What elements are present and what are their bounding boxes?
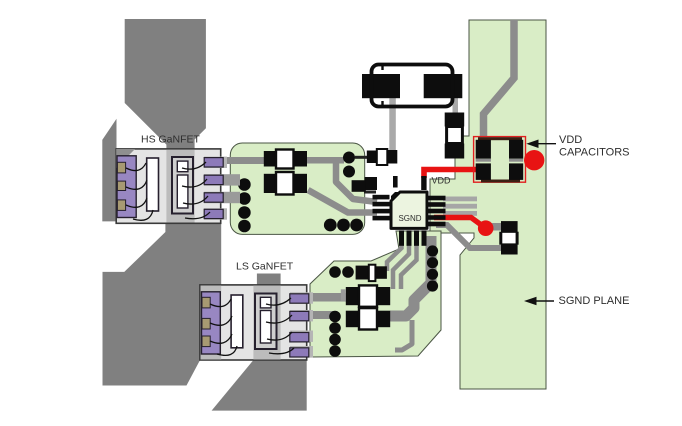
LS package: die block 2: [255, 294, 277, 350]
LS GaNFET package body: [200, 285, 307, 360]
copper pour: stub above LS package: [257, 274, 281, 287]
vias: HS drive left column: [238, 178, 251, 191]
HS package: die rail 1: [147, 158, 159, 211]
trace: wide band under via column into LS: [390, 236, 431, 316]
HS package: source pad strip (purple): [117, 156, 136, 218]
capacitor: small cap above IC, right pad: [387, 150, 397, 164]
svg-text:SGND PLANE: SGND PLANE: [559, 295, 630, 307]
LS package: bond wires left: [210, 299, 231, 307]
HS package: tan vias in strip: [117, 162, 125, 173]
HS package: die block 2 small pad: [177, 161, 188, 172]
trace: IC thin traces right 1: [443, 197, 477, 202]
capacitor: small cap above IC, body: [377, 149, 388, 165]
red via: VDD circle: [524, 150, 544, 170]
vias: HS drive bottom row: [324, 219, 337, 232]
outline: bulk caps courtyard: [372, 65, 453, 107]
capacitor: LS small cap body: [369, 265, 376, 281]
IC pin-1 notch: [391, 192, 400, 201]
pad: HS drive right square: [352, 180, 366, 192]
trace: IC thin traces right 3: [443, 211, 477, 216]
pad: IC VDD pin: [421, 176, 426, 190]
HS package: bond wires right: [182, 162, 206, 169]
VDD cap right, top pad: [509, 140, 523, 159]
red via: near IC: [478, 220, 494, 236]
VDD cap mid gray bars: [476, 159, 491, 162]
trace: IC bottom pin 3 to LS: [401, 233, 417, 289]
trace: SGND plane bent trace: [484, 20, 515, 137]
LS package: die rail 1: [231, 295, 243, 348]
LS package: tan vias in strip: [202, 297, 210, 308]
trace: IC bottom pin 2 to LS: [393, 233, 409, 289]
capacitor: small cap right of via, bottom pad: [501, 243, 518, 254]
trace: from left top cap down: [389, 98, 396, 151]
svg-text:HS GaNFET: HS GaNFET: [141, 134, 201, 146]
vias: HS drive right pair: [343, 152, 355, 164]
VDD cap body outline bottom: [481, 180, 520, 183]
capacitor: polarized cap body: [447, 127, 463, 144]
LS package: die block 2 small pad: [260, 297, 271, 308]
trace: HS drive diag to IC row 2: [308, 190, 377, 213]
capacitor: LS mid cap body: [359, 285, 377, 306]
capacitor C-top-right (bulk cap body): [424, 74, 463, 98]
callout: VDD CAPACITORS arrow: [526, 140, 538, 149]
trace: LS bottom L-trace: [395, 320, 412, 350]
copper pour: bottom-left large ground polygon: [103, 214, 222, 386]
capacitor: LS mid cap left pad: [346, 287, 359, 305]
HS GaNFET package body: [116, 149, 221, 223]
LS package: gray pad extensions right: [290, 292, 313, 303]
HS package: left triangle shade: [116, 149, 135, 168]
IC U1 body: [391, 192, 427, 228]
VDD cap body outline top: [478, 137, 522, 140]
red trace: VDD from IC to caps: [424, 170, 476, 179]
trace: from right top cap down to polarized cap: [453, 98, 459, 114]
vias: LS drive left column: [329, 311, 341, 323]
LS package: gate pads right (purple): [290, 294, 309, 303]
HS package: die block 2: [172, 157, 193, 214]
trace: HS pad to cap1: [214, 157, 265, 164]
trace: IC thin traces right 2: [443, 204, 477, 209]
thin trace: via to small cap: [355, 156, 369, 159]
copper pour: left strip beside HS package: [102, 119, 116, 222]
capacitor body side bars: [499, 232, 502, 245]
red trace: SGND sense to via: [434, 218, 486, 229]
component: small black square left of IC: [365, 177, 378, 190]
trace: via to cap top pad: [490, 223, 504, 231]
capacitor: small cap right of via, body: [502, 233, 517, 244]
copper pour: neck behind LS package: [253, 285, 280, 360]
capacitor: polarized cap bottom pad: [445, 144, 465, 159]
capacitor: small cap above IC, left pad: [367, 151, 377, 164]
capacitor: HS drive cap2 right pad: [294, 174, 308, 193]
svg-text:CAPACITORS: CAPACITORS: [559, 147, 630, 159]
VDD capacitors red courtyard: [474, 137, 526, 183]
trace: HS drive elbow to IC row 1: [336, 163, 377, 202]
capacitor: LS lower cap left pad: [346, 311, 359, 328]
capacitor: HS drive cap1 right pad: [294, 151, 308, 167]
callout: SGND PLANE arrow: [524, 297, 537, 306]
VDD cap left, top pad: [476, 140, 491, 159]
trace: LS pads to lower area: [300, 311, 333, 319]
IC left pads: [373, 195, 390, 200]
LS package: bond wires right: [266, 298, 291, 305]
copper pour: band under LS package: [212, 359, 307, 411]
capacitor: HS drive cap2 left pad: [264, 174, 276, 193]
pad: gray small pad left of mid cap: [341, 289, 346, 301]
vias: column right of LS region: [427, 245, 438, 256]
LS package: dark band left (pour through): [201, 286, 222, 360]
capacitor: LS small cap right pad: [375, 266, 387, 279]
capacitor: polarized cap top pad: [445, 113, 465, 127]
IC right pads: [427, 196, 446, 201]
capacitor: HS drive cap1 body: [276, 150, 294, 169]
capacitor: LS mid cap right pad: [377, 287, 390, 305]
trace: cap1 to via pair: [304, 157, 344, 164]
svg-text:VDD: VDD: [559, 134, 582, 146]
vias: LS drive top pair: [329, 266, 341, 278]
pad: IC top pin left: [393, 176, 398, 188]
capacitor: LS lower cap body: [359, 308, 377, 329]
copper pour: neck behind HS package: [166, 149, 194, 223]
gate-drive plane: LS polygon: [310, 231, 441, 357]
HS package: die block 2 tall pad: [177, 175, 188, 208]
LS package: source pad strip (purple): [202, 292, 221, 354]
capacitor: LS small cap left pad: [356, 266, 369, 280]
trace: gray S-trace via to cap: [436, 225, 502, 248]
trace: IC bottom pin 1 to LS: [387, 233, 402, 271]
tick marks on courtyard: [381, 65, 383, 106]
LS package: die block 2 tall pad: [260, 311, 271, 344]
capacitor: LS lower cap right pad: [377, 311, 390, 328]
HS package: gate pads right (purple): [204, 158, 223, 167]
capacitor: small cap right of via, top pad: [501, 221, 518, 233]
HS package: bond wires left: [126, 163, 146, 171]
capacitor: HS drive cap1 left pad: [264, 151, 276, 167]
svg-text:SGND: SGND: [398, 214, 421, 223]
capacitor C-top-left (bulk cap body): [362, 74, 400, 98]
svg-text:VDD: VDD: [432, 176, 452, 186]
VDD cap right, bottom pad: [509, 163, 523, 180]
VDD cap left, bottom pad: [476, 163, 491, 180]
LS package: dark band center (pour through): [253, 286, 280, 360]
trace: LS pads to mid cap: [300, 293, 347, 302]
copper pour: top-left drain polygon: [125, 19, 206, 150]
SGND plane (right): [430, 20, 546, 389]
capacitor: HS drive cap2 body: [276, 172, 294, 195]
HS package: dark band (pour through): [166, 150, 194, 223]
IC bottom pins: [399, 230, 404, 245]
HS package: gray pad extensions right: [204, 157, 227, 168]
svg-text:LS GaNFET: LS GaNFET: [236, 260, 294, 272]
gate-drive plane: HS (green rounded rect): [230, 143, 364, 234]
thin trace: pad to IC area: [364, 191, 376, 194]
